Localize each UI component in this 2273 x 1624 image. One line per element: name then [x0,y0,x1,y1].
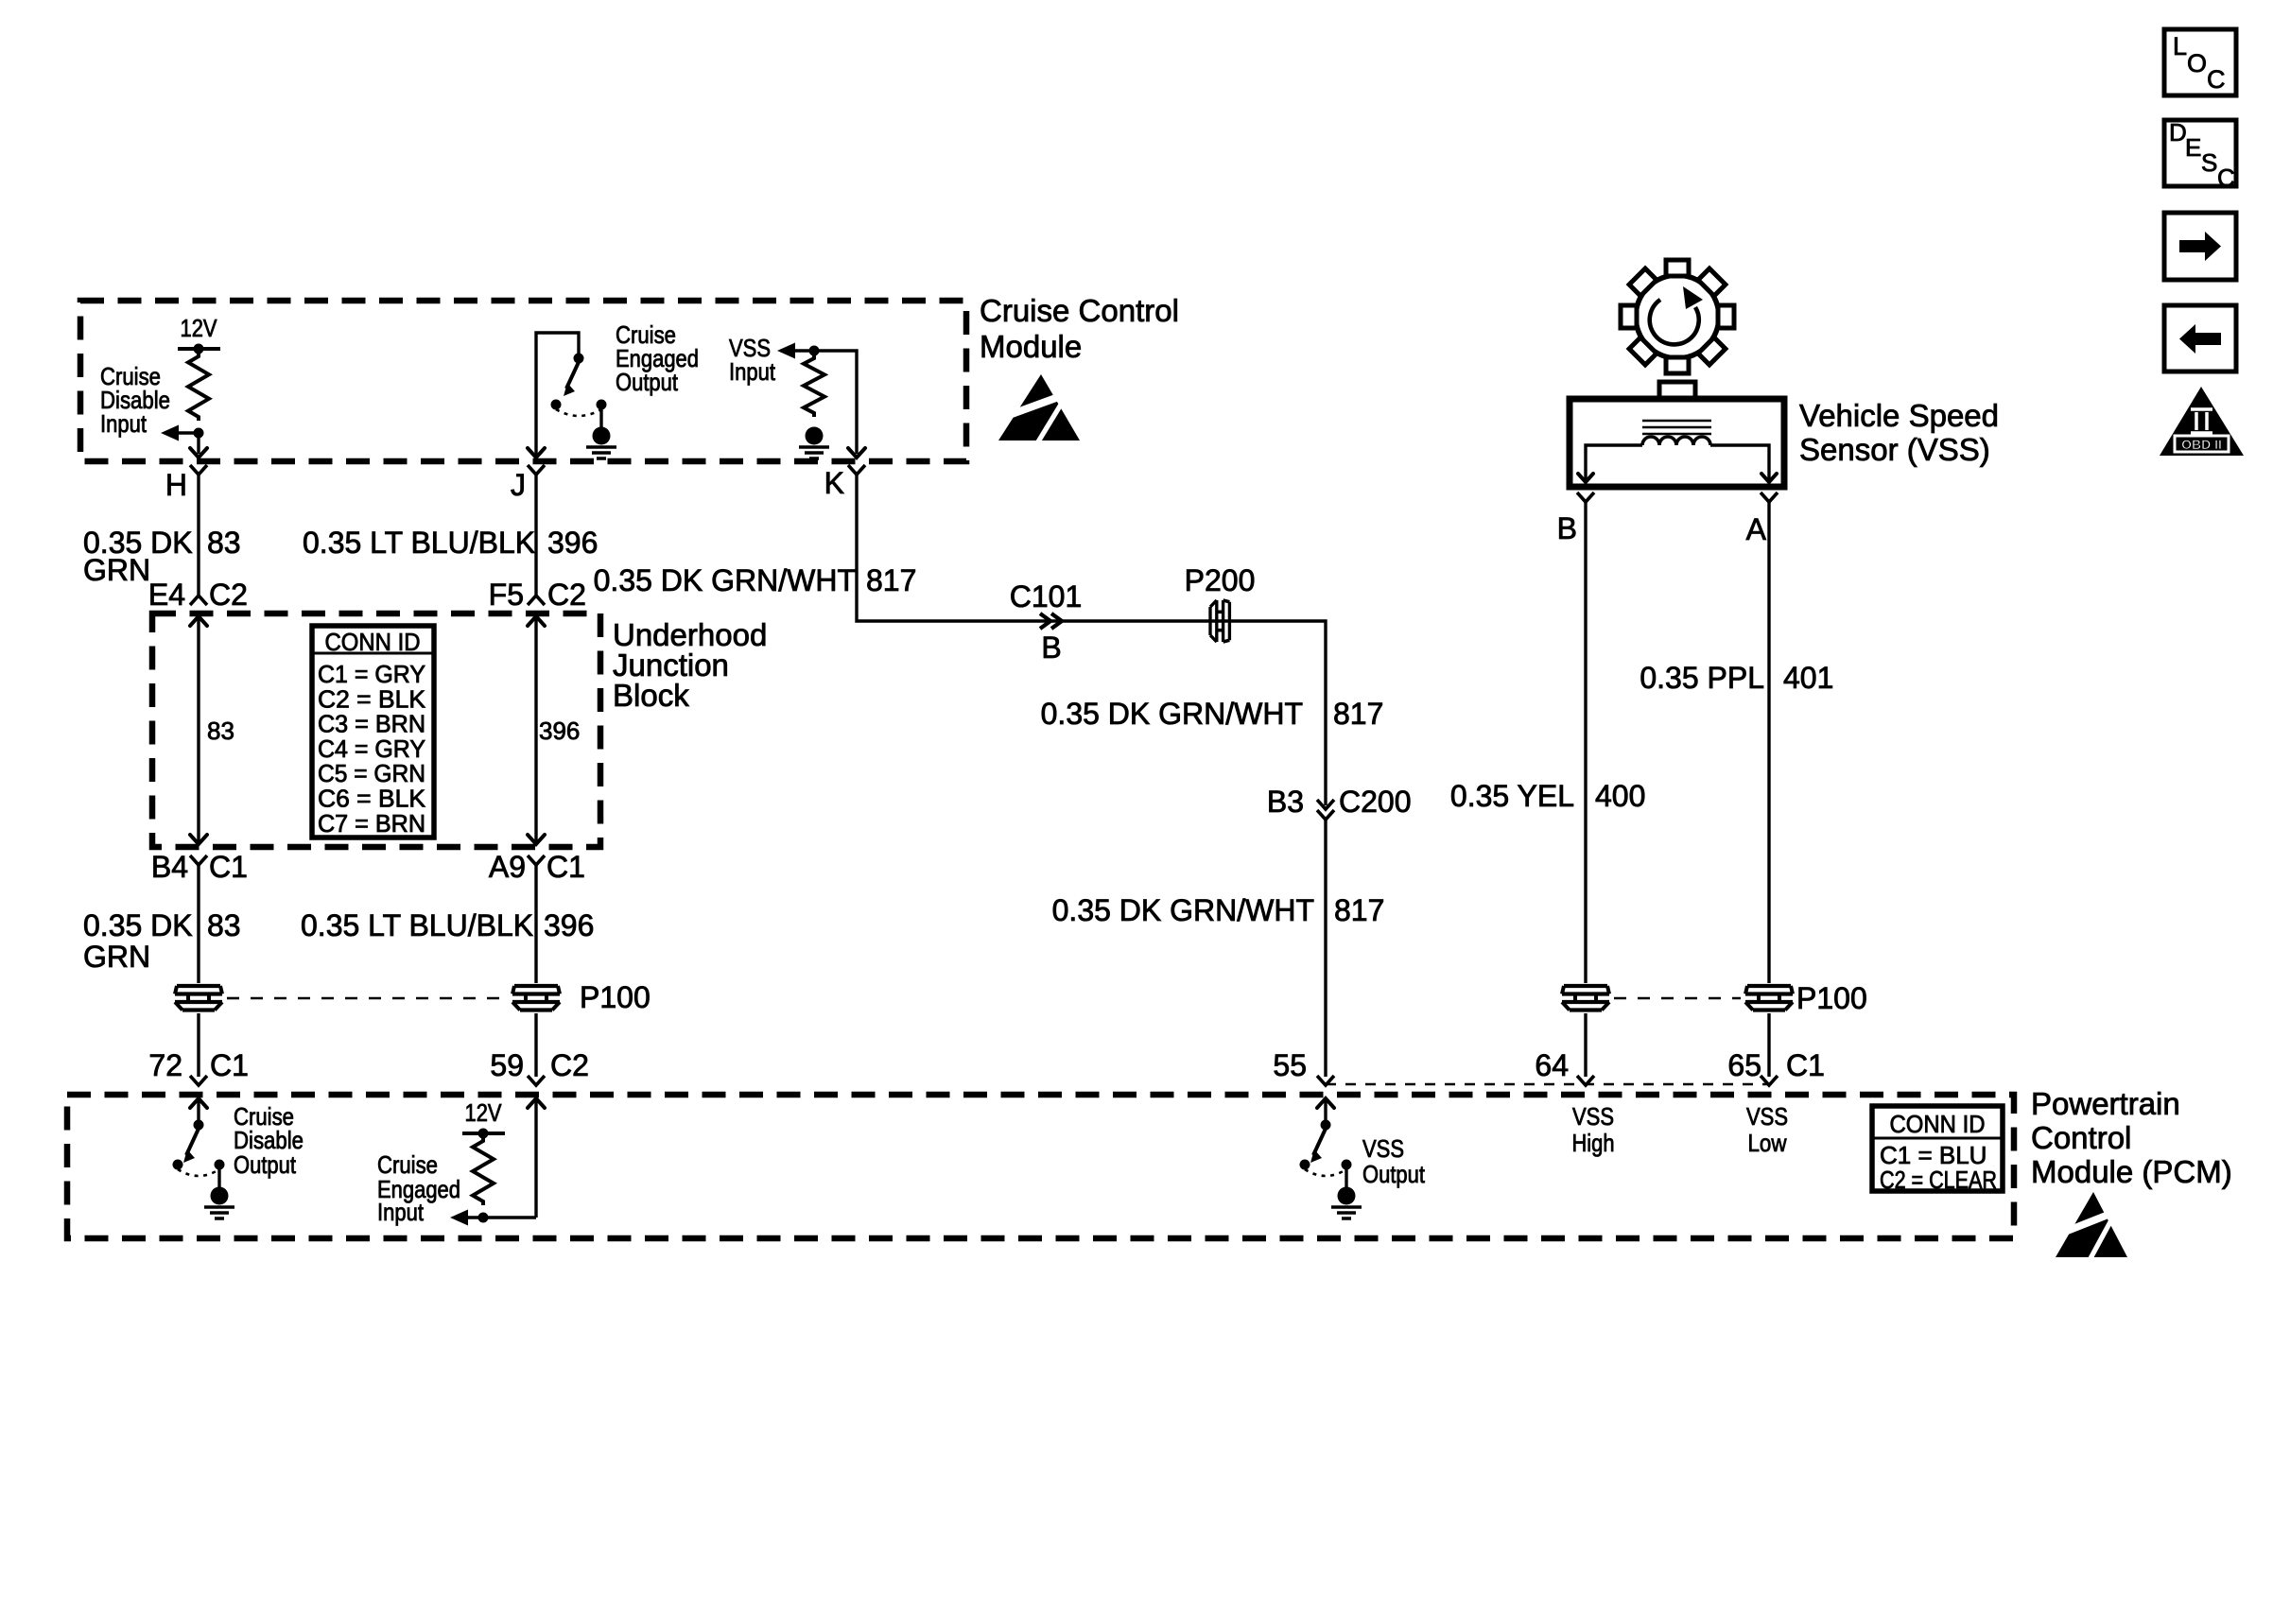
svg-text:401: 401 [1783,661,1833,695]
svg-text:0.35 YEL: 0.35 YEL [1450,779,1574,813]
svg-text:L: L [2173,32,2187,60]
svg-text:64: 64 [1535,1048,1569,1082]
svg-text:400: 400 [1595,779,1645,813]
svg-text:A9: A9 [489,850,526,884]
svg-text:B: B [1557,511,1577,545]
svg-text:83: 83 [207,717,234,745]
svg-text:Block: Block [613,678,689,713]
svg-text:C1: C1 [210,1048,249,1082]
svg-text:Input: Input [729,357,776,386]
svg-text:C2: C2 [547,578,586,612]
svg-text:GRN: GRN [83,940,150,974]
svg-text:E: E [2185,133,2201,162]
svg-text:Cruise Control: Cruise Control [980,293,1179,328]
svg-text:VSS: VSS [1572,1102,1614,1131]
svg-text:P200: P200 [1185,563,1256,597]
svg-text:P100: P100 [1796,981,1867,1015]
svg-text:0.35 LT BLU/BLK: 0.35 LT BLU/BLK [303,526,535,560]
svg-text:Output: Output [1362,1160,1426,1188]
svg-text:VSS: VSS [1746,1102,1788,1131]
svg-text:C7 = BRN: C7 = BRN [318,809,425,838]
svg-text:83: 83 [207,908,241,942]
svg-text:C2: C2 [550,1048,589,1082]
svg-text:S: S [2201,148,2217,177]
svg-text:GRN: GRN [83,553,150,587]
svg-text:65: 65 [1727,1048,1761,1082]
svg-text:0.35 DK: 0.35 DK [83,908,193,942]
svg-text:396: 396 [547,526,598,560]
svg-text:B3: B3 [1267,785,1304,819]
svg-text:H: H [165,468,187,502]
svg-text:C1: C1 [209,850,248,884]
svg-text:D: D [2169,118,2187,147]
svg-text:CONN ID: CONN ID [1890,1110,1986,1138]
svg-text:C: C [2217,164,2235,192]
svg-text:K: K [824,466,844,500]
svg-text:Vehicle Speed: Vehicle Speed [1799,398,1999,433]
svg-text:C: C [2207,65,2226,94]
svg-text:396: 396 [539,717,580,745]
svg-text:0.35 PPL: 0.35 PPL [1640,661,1764,695]
svg-text:12V: 12V [181,314,218,342]
svg-text:Module: Module [980,329,1082,364]
svg-text:Output: Output [234,1150,297,1179]
svg-text:55: 55 [1273,1048,1307,1082]
svg-text:72: 72 [148,1048,182,1082]
svg-text:817: 817 [866,563,916,597]
svg-text:Control: Control [2031,1120,2131,1155]
svg-text:C1: C1 [547,850,585,884]
svg-text:C1: C1 [1786,1048,1825,1082]
svg-text:83: 83 [207,526,241,560]
svg-text:F5: F5 [489,578,524,612]
svg-text:P100: P100 [580,980,651,1014]
svg-text:817: 817 [1334,893,1384,927]
svg-text:Module (PCM): Module (PCM) [2031,1154,2232,1189]
svg-text:0.35 DK GRN/WHT: 0.35 DK GRN/WHT [1052,893,1314,927]
svg-text:C200: C200 [1339,785,1412,819]
svg-text:High: High [1572,1129,1615,1157]
svg-text:J: J [511,468,526,502]
svg-text:E4: E4 [148,578,185,612]
svg-text:C2 = CLEAR: C2 = CLEAR [1880,1166,1997,1194]
svg-text:CONN ID: CONN ID [325,628,421,656]
svg-text:396: 396 [544,908,594,942]
svg-text:VSS: VSS [1362,1134,1404,1163]
svg-text:Sensor (VSS): Sensor (VSS) [1799,432,1990,467]
svg-text:12V: 12V [465,1098,503,1127]
svg-text:C101: C101 [1010,579,1083,613]
svg-text:C2: C2 [209,578,248,612]
svg-text:0.35 LT BLU/BLK: 0.35 LT BLU/BLK [301,908,533,942]
svg-text:0.35 DK GRN/WHT: 0.35 DK GRN/WHT [1041,697,1303,731]
svg-text:B: B [1041,631,1061,665]
svg-text:O: O [2187,49,2207,78]
svg-text:Powertrain: Powertrain [2031,1086,2180,1121]
svg-text:817: 817 [1333,697,1383,731]
svg-text:Input: Input [377,1198,425,1226]
svg-text:Input: Input [100,409,147,438]
svg-text:0.35 DK GRN/WHT: 0.35 DK GRN/WHT [594,563,856,597]
svg-text:OBD II: OBD II [2181,437,2222,452]
svg-text:Low: Low [1748,1129,1787,1157]
svg-text:B4: B4 [151,850,188,884]
svg-text:Output: Output [616,368,679,396]
svg-text:A: A [1746,512,1767,546]
svg-text:59: 59 [490,1048,524,1082]
